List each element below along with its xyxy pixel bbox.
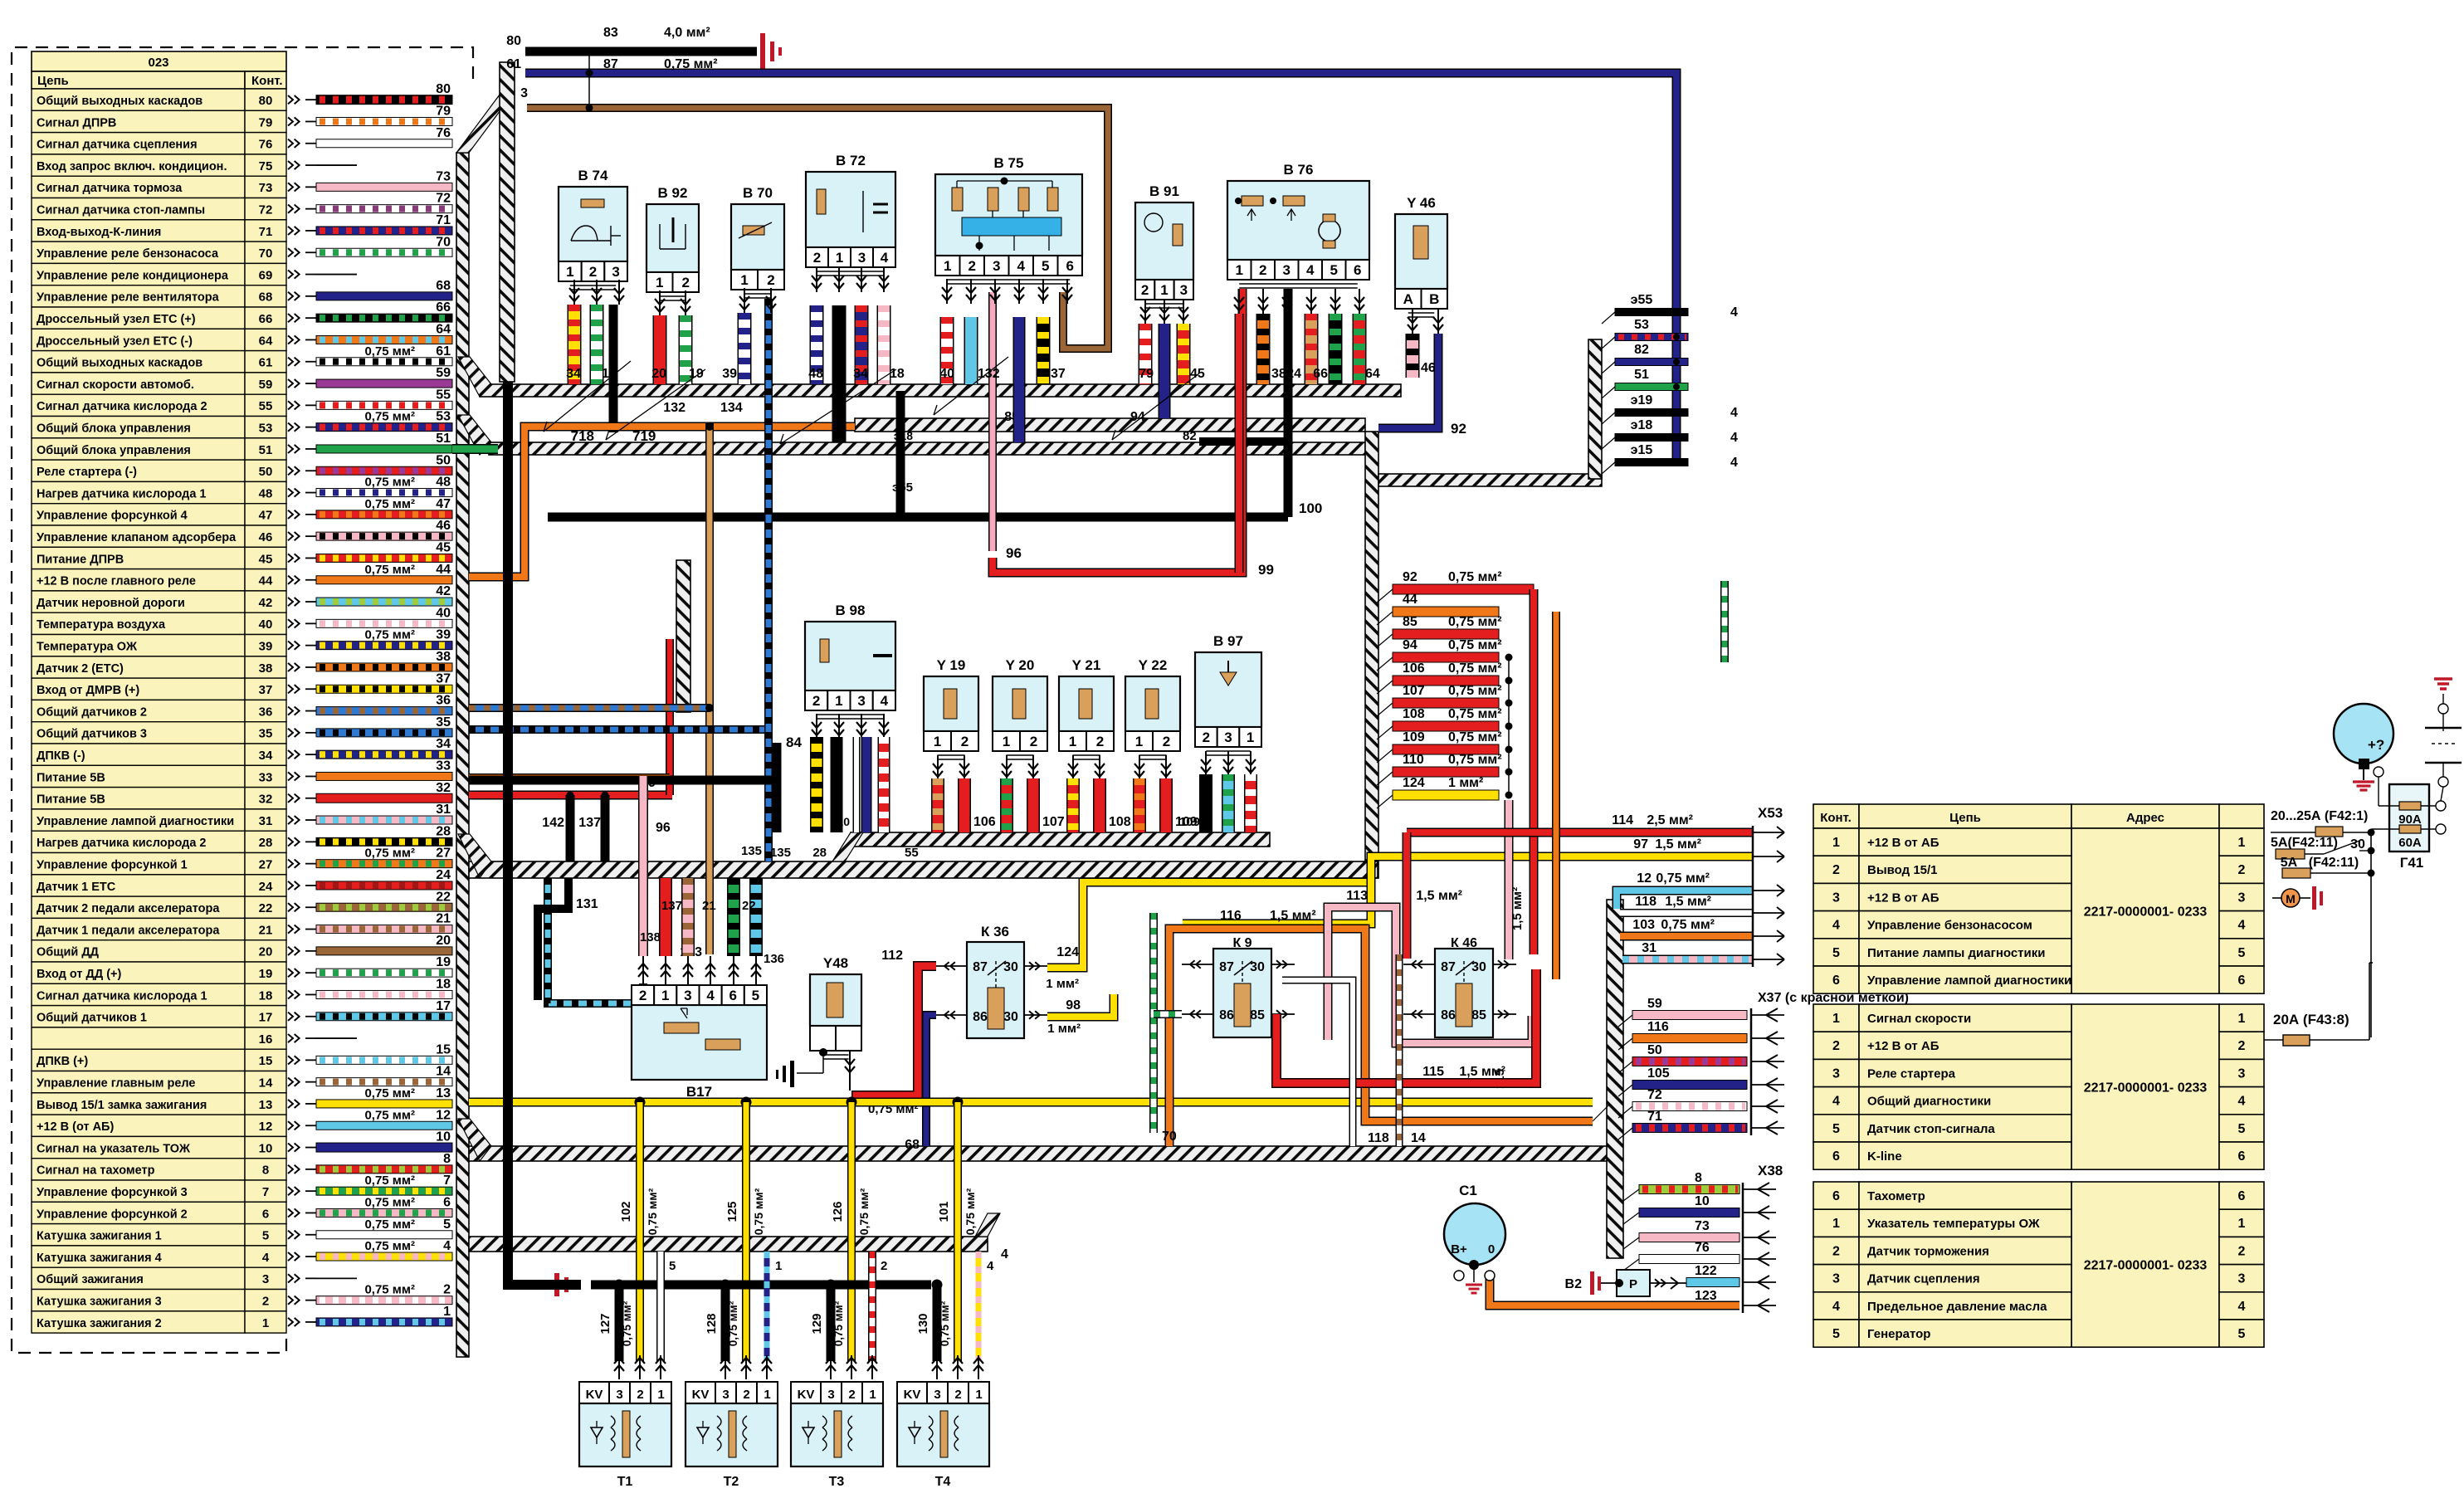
svg-text:12: 12: [1637, 871, 1652, 886]
svg-text:2: 2: [682, 275, 690, 290]
wire net 38 from ECU pin: [316, 663, 452, 671]
table row pin 80: [32, 89, 245, 110]
svg-text:21: 21: [259, 923, 273, 937]
sensor B91: [1135, 203, 1193, 280]
table row pin 71: [32, 220, 245, 242]
svg-text:3: 3: [1832, 891, 1840, 905]
svg-text:6: 6: [2238, 1189, 2246, 1203]
connector B92: [646, 204, 699, 272]
svg-text:3: 3: [1283, 262, 1291, 278]
svg-text:1: 1: [1832, 1217, 1840, 1231]
svg-text:0,75 мм²: 0,75 мм²: [964, 1188, 977, 1235]
svg-text:2: 2: [2238, 1039, 2246, 1053]
svg-text:1: 1: [656, 275, 663, 290]
svg-text:2: 2: [1832, 1039, 1840, 1053]
svg-text:0,75 мм²: 0,75 мм²: [364, 1108, 415, 1122]
svg-text:75: 75: [259, 159, 273, 173]
svg-text:1: 1: [657, 1388, 664, 1402]
svg-text:55: 55: [259, 399, 273, 413]
svg-text:В17: В17: [686, 1084, 712, 1100]
svg-text:1: 1: [836, 250, 843, 266]
svg-text:Сигнал датчика тормоза: Сигнал датчика тормоза: [37, 182, 183, 195]
wire net 32 red extension: [469, 791, 672, 800]
svg-text:Вход-выход-К-линия: Вход-выход-К-линия: [37, 226, 161, 239]
svg-text:3: 3: [857, 693, 865, 709]
red vertical 115-ish: [1530, 589, 1539, 954]
svg-text:В 75: В 75: [994, 155, 1024, 171]
svg-text:124: 124: [1056, 945, 1079, 959]
svg-text:1,5 мм²: 1,5 мм²: [1459, 1065, 1505, 1079]
svg-text:1: 1: [1247, 730, 1254, 745]
svg-text:3: 3: [262, 1272, 269, 1286]
svg-text:1: 1: [2238, 1012, 2246, 1026]
svg-text:85: 85: [1471, 1008, 1486, 1022]
svg-text:64: 64: [1365, 367, 1380, 381]
svg-text:4: 4: [2238, 1300, 2246, 1314]
svg-text:3: 3: [993, 258, 1000, 274]
svg-text:22: 22: [436, 890, 451, 904]
svg-text:Т2: Т2: [724, 1475, 739, 1489]
harness bus B2co horizontal y512: [855, 418, 1365, 432]
svg-text:109: 109: [1403, 730, 1425, 744]
B75 pin wires 40 132 37: [940, 317, 954, 384]
svg-text:4: 4: [706, 988, 715, 1003]
svg-text:105: 105: [1647, 1066, 1670, 1081]
wire net 42 from ECU pin: [316, 598, 452, 606]
svg-text:137: 137: [661, 899, 682, 913]
svg-text:1: 1: [1069, 734, 1076, 749]
green net 51 extension: [452, 444, 498, 454]
svg-text:64: 64: [259, 334, 273, 348]
svg-text:94: 94: [1130, 410, 1145, 424]
wire net 3 brown: [527, 108, 1108, 349]
svg-text:30: 30: [1003, 960, 1018, 974]
svg-text:53: 53: [436, 410, 451, 424]
svg-text:36: 36: [259, 705, 273, 719]
svg-text:3: 3: [2238, 1272, 2246, 1286]
svg-text:8: 8: [1695, 1171, 1702, 1185]
svg-text:+12 В от АБ: +12 В от АБ: [1867, 836, 1939, 850]
stub 124: [1393, 790, 1499, 800]
wire net 14 from ECU pin: [316, 1078, 452, 1086]
svg-text:4: 4: [443, 1239, 451, 1253]
table row pin 46: [32, 525, 245, 547]
X37 connector line: [1750, 1008, 1753, 1135]
svg-text:Управление клапаном адсорбера: Управление клапаном адсорбера: [37, 531, 237, 544]
svg-text:107: 107: [1403, 684, 1425, 698]
svg-text:32: 32: [436, 781, 451, 795]
svg-text:1: 1: [944, 258, 951, 274]
svg-text:122: 122: [1695, 1264, 1717, 1278]
svg-text:113: 113: [1346, 889, 1368, 903]
svg-text:6: 6: [2238, 1149, 2246, 1164]
svg-text:5: 5: [669, 1259, 676, 1273]
svg-text:71: 71: [1647, 1110, 1662, 1124]
svg-text:22: 22: [259, 901, 273, 915]
svg-text:0,75 мм²: 0,75 мм²: [364, 344, 415, 359]
svg-text:Питание 5В: Питание 5В: [37, 771, 105, 784]
svg-text:45: 45: [259, 552, 273, 566]
svg-text:4: 4: [1832, 1095, 1840, 1109]
B76 pin wires: [1235, 314, 1244, 573]
wire net 80/83 black 4.0mm power ground: [525, 47, 757, 56]
svg-text:30: 30: [1471, 960, 1486, 974]
ignition coil T1: [579, 1382, 609, 1403]
svg-text:Датчик 1 педали акселератора: Датчик 1 педали акселератора: [37, 924, 220, 937]
svg-text:2: 2: [1203, 730, 1210, 745]
wire net 59 from ECU pin: [316, 379, 452, 388]
coil T2 yellow drop 125: [741, 1097, 752, 1108]
svg-text:126: 126: [831, 1201, 845, 1222]
svg-text:116: 116: [1647, 1020, 1669, 1034]
svg-text:+12 В после главного реле: +12 В после главного реле: [37, 575, 196, 588]
svg-text:Сигнал скорости автомоб.: Сигнал скорости автомоб.: [37, 378, 194, 392]
table row pin 39: [32, 635, 245, 656]
wire harness bus V1 (vertical, right of table): [456, 153, 469, 1357]
svg-text:87: 87: [1219, 960, 1234, 974]
svg-text:э19: э19: [1631, 393, 1653, 407]
svg-text:1: 1: [1135, 734, 1143, 749]
stub 73: [1639, 1233, 1739, 1242]
svg-text:19: 19: [259, 967, 273, 981]
red net 112: [856, 966, 936, 1105]
wire net 13 yellow main: [469, 1098, 1593, 1107]
harness bus B1 horizontal y470: [480, 384, 1401, 397]
svg-text:1: 1: [443, 1305, 451, 1319]
B91 pin wires 79 45: [1139, 324, 1153, 384]
red net 114 to X53: [1407, 828, 1753, 837]
relay К 46: [1435, 949, 1493, 1037]
net 36 extension: [469, 704, 710, 712]
svg-text:0,75 мм²: 0,75 мм²: [857, 1188, 871, 1235]
svg-text:68: 68: [436, 279, 451, 293]
svg-text:(F42:11): (F42:11): [2309, 856, 2359, 870]
sensor B98: [805, 622, 895, 691]
table row pin 15: [32, 1049, 245, 1071]
table row pin 50: [32, 460, 245, 481]
svg-text:Управление лампой диагностики: Управление лампой диагностики: [37, 815, 234, 828]
table row pin 55: [32, 394, 245, 416]
svg-text:76: 76: [436, 126, 451, 140]
stub 85: [1393, 629, 1499, 639]
svg-text:1: 1: [262, 1316, 269, 1330]
wire net 33 from ECU pin: [316, 772, 452, 780]
svg-text:131: 131: [576, 897, 598, 911]
svg-text:В 76: В 76: [1284, 162, 1314, 178]
svg-text:э55: э55: [892, 481, 913, 495]
svg-text:73: 73: [1695, 1219, 1710, 1233]
svg-text:1: 1: [1003, 734, 1010, 749]
valve Y46: [1395, 214, 1447, 289]
svg-text:Генератор: Генератор: [1867, 1327, 1930, 1341]
svg-text:38: 38: [259, 661, 273, 676]
svg-text:5: 5: [1832, 1122, 1840, 1136]
svg-text:Y 46: Y 46: [1407, 195, 1436, 211]
stub 92: [1393, 584, 1534, 594]
svg-text:106: 106: [973, 815, 996, 829]
wire net 44 from ECU pin: [316, 576, 452, 584]
svg-text:Сигнал датчика сцепления: Сигнал датчика сцепления: [37, 139, 198, 152]
svg-text:1: 1: [1160, 282, 1168, 298]
svg-text:1: 1: [661, 988, 669, 1003]
svg-text:55: 55: [905, 846, 919, 860]
svg-text:Цепь: Цепь: [1949, 811, 1981, 825]
battery ground symbol top: [760, 33, 765, 70]
svg-text:135: 135: [770, 846, 791, 860]
wire net 76 from ECU pin: [316, 139, 452, 148]
wire net 51 from ECU pin: [316, 445, 452, 453]
svg-text:1: 1: [566, 264, 573, 280]
svg-text:+12 В (от АБ): +12 В (от АБ): [37, 1120, 114, 1134]
harness bus V4 vertical x1922: [1588, 339, 1602, 479]
svg-text:96: 96: [656, 821, 671, 835]
svg-text:94: 94: [1403, 638, 1417, 652]
svg-text:118: 118: [1635, 895, 1656, 909]
svg-text:8: 8: [262, 1164, 269, 1178]
svg-text:2: 2: [589, 264, 597, 280]
svg-text:Х53: Х53: [1758, 805, 1783, 821]
svg-text:39: 39: [722, 367, 737, 381]
cluster B76: [1227, 181, 1369, 260]
svg-text:Р: Р: [1629, 1277, 1637, 1291]
svg-text:48: 48: [259, 486, 273, 500]
svg-text:34: 34: [259, 749, 273, 763]
svg-text:1: 1: [740, 272, 748, 288]
svg-text:0,75 мм²: 0,75 мм²: [1448, 570, 1502, 584]
svg-text:Управление форсункой 1: Управление форсункой 1: [37, 859, 188, 872]
svg-text:6: 6: [1066, 258, 1074, 274]
svg-text:87: 87: [603, 57, 618, 71]
table row pin 10: [32, 1136, 245, 1158]
svg-text:1 мм²: 1 мм²: [1046, 977, 1079, 991]
svg-text:1,5 мм²: 1,5 мм²: [1270, 909, 1316, 923]
svg-text:С1: С1: [1459, 1183, 1477, 1198]
injector rail B75: [935, 174, 1082, 256]
svg-text:Т4: Т4: [935, 1475, 951, 1489]
yellow net 98 hook: [1047, 994, 1114, 1017]
svg-text:28: 28: [259, 836, 273, 850]
svg-text:0,75 мм²: 0,75 мм²: [1448, 753, 1502, 767]
relay K36: [967, 942, 1024, 1038]
svg-text:36: 36: [436, 694, 451, 708]
svg-text:2: 2: [969, 258, 976, 274]
X53 connector line: [1752, 826, 1754, 967]
svg-text:136: 136: [764, 952, 784, 966]
svg-text:17: 17: [259, 1011, 273, 1025]
wire net 92 dark blue from Y46: [1378, 334, 1438, 428]
svg-text:66: 66: [436, 300, 451, 315]
svg-text:6: 6: [1832, 1189, 1840, 1203]
svg-text:Датчик стоп-сигнала: Датчик стоп-сигнала: [1867, 1122, 1995, 1136]
harness bus B4 horizontal y1390: [469, 1146, 1609, 1161]
svg-text:10: 10: [1695, 1194, 1710, 1208]
ignition coil T3: [791, 1382, 821, 1403]
stub 44: [1393, 607, 1499, 617]
svg-text:Сигнал ДПРВ: Сигнал ДПРВ: [37, 116, 116, 129]
connector table X38: [2071, 1182, 2219, 1347]
svg-text:2: 2: [767, 272, 774, 288]
svg-text:84: 84: [786, 734, 802, 750]
svg-text:40: 40: [259, 617, 273, 632]
fuel pump motor M: [2272, 897, 2281, 899]
B74 pin wires 34 15: [568, 305, 582, 384]
svg-text:э18: э18: [1631, 418, 1653, 432]
svg-text:118: 118: [1368, 1131, 1389, 1145]
svg-text:134: 134: [720, 401, 743, 415]
svg-text:59: 59: [436, 366, 451, 380]
svg-text:87: 87: [1441, 960, 1456, 974]
table row pin 42: [32, 591, 245, 612]
svg-text:44: 44: [436, 563, 451, 577]
svg-text:0,75 мм²: 0,75 мм²: [1656, 871, 1710, 886]
wire net 40 from ECU pin: [316, 619, 452, 627]
stub 71: [1632, 1124, 1747, 1133]
svg-text:2: 2: [1141, 282, 1149, 298]
svg-text:Управление реле бензонасоса: Управление реле бензонасоса: [37, 247, 219, 261]
wire net 31 from ECU pin: [316, 816, 452, 824]
wire net 53 from ECU pin: [316, 423, 452, 432]
svg-text:110: 110: [831, 815, 850, 828]
stub э19: [1615, 409, 1688, 417]
svg-text:3: 3: [612, 264, 619, 280]
wire net 70 from ECU pin: [316, 248, 452, 256]
svg-text:4: 4: [1017, 258, 1026, 274]
svg-text:+?: +?: [2368, 737, 2384, 753]
table row pin 72: [32, 198, 245, 220]
svg-text:2: 2: [1030, 734, 1037, 749]
svg-text:40: 40: [436, 606, 451, 620]
svg-text:70: 70: [1162, 1130, 1177, 1144]
svg-text:Г41: Г41: [2400, 855, 2424, 871]
svg-text:24: 24: [436, 868, 451, 882]
svg-text:KV: KV: [904, 1388, 921, 1402]
table row pin 5: [32, 1224, 245, 1246]
harness bus A2 horizontal y1011 (injectors): [851, 832, 1270, 847]
svg-text:0,75 мм²: 0,75 мм²: [364, 410, 415, 424]
svg-text:э55: э55: [1631, 293, 1653, 307]
net 35 extension: [469, 725, 768, 734]
svg-text:4: 4: [881, 693, 889, 709]
svg-text:72: 72: [436, 192, 451, 206]
svg-text:В 74: В 74: [578, 168, 608, 183]
svg-text:0,75 мм²: 0,75 мм²: [664, 57, 718, 71]
table row pin 21: [32, 918, 245, 939]
svg-text:32: 32: [259, 793, 273, 807]
table header 023: [32, 51, 286, 71]
svg-text:2: 2: [443, 1283, 451, 1297]
svg-text:135: 135: [741, 844, 762, 858]
table row pin 12: [32, 1115, 245, 1136]
battery symbol right column: [2434, 677, 2452, 681]
wire net 17 from ECU pin: [316, 1013, 452, 1021]
svg-text:37: 37: [1051, 367, 1066, 381]
svg-text:Управление лампой диагностики: Управление лампой диагностики: [1867, 974, 2071, 988]
svg-text:Общий ДД: Общий ДД: [37, 946, 100, 959]
table row pin 3: [32, 1267, 245, 1289]
svg-text:28: 28: [436, 824, 451, 838]
svg-text:48: 48: [808, 367, 823, 381]
svg-text:1: 1: [2238, 836, 2246, 850]
gauge C1: [1444, 1203, 1505, 1265]
stub 53: [1615, 334, 1688, 341]
wire net 8 from ECU pin: [316, 1165, 452, 1174]
stub 10: [1639, 1208, 1739, 1218]
red vertical x807: [666, 639, 674, 795]
ECU connector table 023 dashed outline: [12, 47, 473, 1353]
svg-text:2: 2: [262, 1295, 269, 1309]
wire net 12 from ECU pin: [316, 1121, 452, 1130]
svg-text:51: 51: [259, 443, 273, 457]
svg-text:98: 98: [1066, 998, 1081, 1013]
svg-text:0,75 мм²: 0,75 мм²: [1448, 638, 1502, 652]
svg-text:142: 142: [542, 816, 564, 830]
svg-text:20А (F43:8): 20А (F43:8): [2273, 1012, 2349, 1027]
svg-text:2217-0000001- 0233: 2217-0000001- 0233: [2084, 1259, 2208, 1273]
svg-text:0,75 мм²: 0,75 мм²: [727, 1300, 739, 1346]
svg-text:2,5 мм²: 2,5 мм²: [1647, 813, 1693, 827]
stub 105: [1632, 1081, 1747, 1090]
svg-text:Общий датчиков 3: Общий датчиков 3: [37, 728, 147, 741]
table row pin 37: [32, 678, 245, 700]
table row pin 28: [32, 831, 245, 852]
svg-text:5: 5: [262, 1229, 269, 1243]
svg-text:13: 13: [436, 1086, 451, 1100]
svg-text:Предельное давление масла: Предельное давление масла: [1867, 1300, 2047, 1314]
svg-text:Общий блока управления: Общий блока управления: [37, 422, 191, 436]
svg-text:Адрес: Адрес: [2126, 811, 2164, 825]
svg-text:24: 24: [1286, 367, 1301, 381]
black stub 718 from B74 pin3: [609, 305, 618, 428]
svg-text:30: 30: [1003, 1010, 1018, 1024]
svg-text:1,5 мм²: 1,5 мм²: [1655, 837, 1701, 852]
svg-text:Общий датчиков 1: Общий датчиков 1: [37, 1012, 147, 1025]
yellow net 124 from K36: [1047, 856, 1371, 968]
valve Y48: [810, 974, 861, 1026]
svg-text:Сигнал скорости: Сигнал скорости: [1867, 1012, 1971, 1026]
injector Y 20: [993, 676, 1047, 731]
svg-text:21: 21: [436, 912, 451, 926]
svg-text:7: 7: [443, 1174, 451, 1188]
svg-text:106: 106: [1403, 661, 1425, 676]
svg-text:2: 2: [1163, 734, 1170, 749]
svg-text:KV: KV: [692, 1388, 710, 1402]
svg-text:60А: 60А: [2398, 836, 2422, 850]
svg-text:10: 10: [259, 1141, 273, 1155]
svg-text:124: 124: [1403, 776, 1425, 790]
svg-text:Управление бензонасосом: Управление бензонасосом: [1867, 919, 2032, 933]
svg-text:115: 115: [1422, 1065, 1444, 1079]
svg-text:30: 30: [1250, 960, 1265, 974]
svg-text:101: 101: [937, 1201, 951, 1222]
white-brown net 14: [1396, 954, 1403, 1146]
svg-text:51: 51: [1634, 368, 1649, 382]
svg-text:Вход от ДМРВ (+): Вход от ДМРВ (+): [37, 684, 139, 697]
svg-text:1: 1: [869, 1388, 876, 1402]
svg-text:Сигнал на указатель ТОЖ: Сигнал на указатель ТОЖ: [37, 1142, 191, 1155]
svg-text:0,75 мм²: 0,75 мм²: [1448, 730, 1502, 744]
svg-text:Датчик неровной дороги: Датчик неровной дороги: [37, 597, 185, 610]
svg-text:83: 83: [603, 26, 618, 40]
injector Y 21: [1059, 676, 1114, 731]
svg-text:7: 7: [262, 1185, 269, 1199]
svg-text:1,5 мм²: 1,5 мм²: [1510, 887, 1525, 930]
wire net 47 from ECU pin: [316, 510, 452, 519]
table row pin 13: [32, 1093, 245, 1115]
svg-text:4: 4: [1001, 1247, 1008, 1261]
svg-text:82: 82: [1634, 343, 1649, 357]
svg-text:80: 80: [436, 82, 451, 96]
svg-text:1,5 мм²: 1,5 мм²: [1665, 895, 1711, 909]
